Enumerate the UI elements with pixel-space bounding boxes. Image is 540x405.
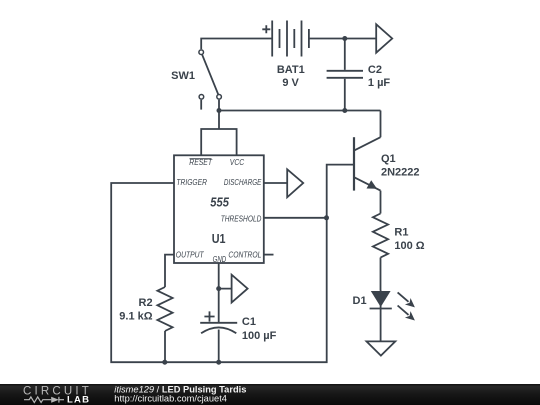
svg-text:SW1: SW1	[171, 70, 195, 82]
svg-text:THRESHOLD: THRESHOLD	[221, 213, 262, 223]
svg-text:555: 555	[210, 194, 229, 209]
svg-text:9.1 kΩ: 9.1 kΩ	[119, 311, 152, 323]
svg-text:R2: R2	[139, 297, 153, 309]
svg-text:GND: GND	[213, 254, 227, 264]
svg-text:DISCHARGE: DISCHARGE	[224, 177, 262, 187]
svg-text:http://circuitlab.com/cjauet4: http://circuitlab.com/cjauet4	[114, 393, 227, 403]
svg-text:VCC: VCC	[230, 157, 245, 167]
svg-text:100 µF: 100 µF	[242, 330, 277, 342]
svg-text:LAB: LAB	[67, 394, 90, 405]
svg-text:1 µF: 1 µF	[368, 77, 391, 89]
svg-text:9 V: 9 V	[282, 77, 299, 89]
svg-text:2N2222: 2N2222	[381, 167, 420, 179]
svg-text:TRIGGER: TRIGGER	[176, 177, 207, 187]
svg-text:U1: U1	[212, 231, 226, 246]
svg-text:OUTPUT: OUTPUT	[176, 249, 205, 259]
svg-text:C1: C1	[242, 316, 256, 328]
svg-text:C2: C2	[368, 64, 382, 76]
svg-text:D1: D1	[353, 295, 367, 307]
svg-text:100 Ω: 100 Ω	[394, 240, 424, 252]
svg-text:CONTROL: CONTROL	[228, 249, 261, 259]
svg-text:Q1: Q1	[381, 153, 396, 165]
svg-text:BAT1: BAT1	[277, 64, 305, 76]
svg-text:R1: R1	[394, 226, 408, 238]
